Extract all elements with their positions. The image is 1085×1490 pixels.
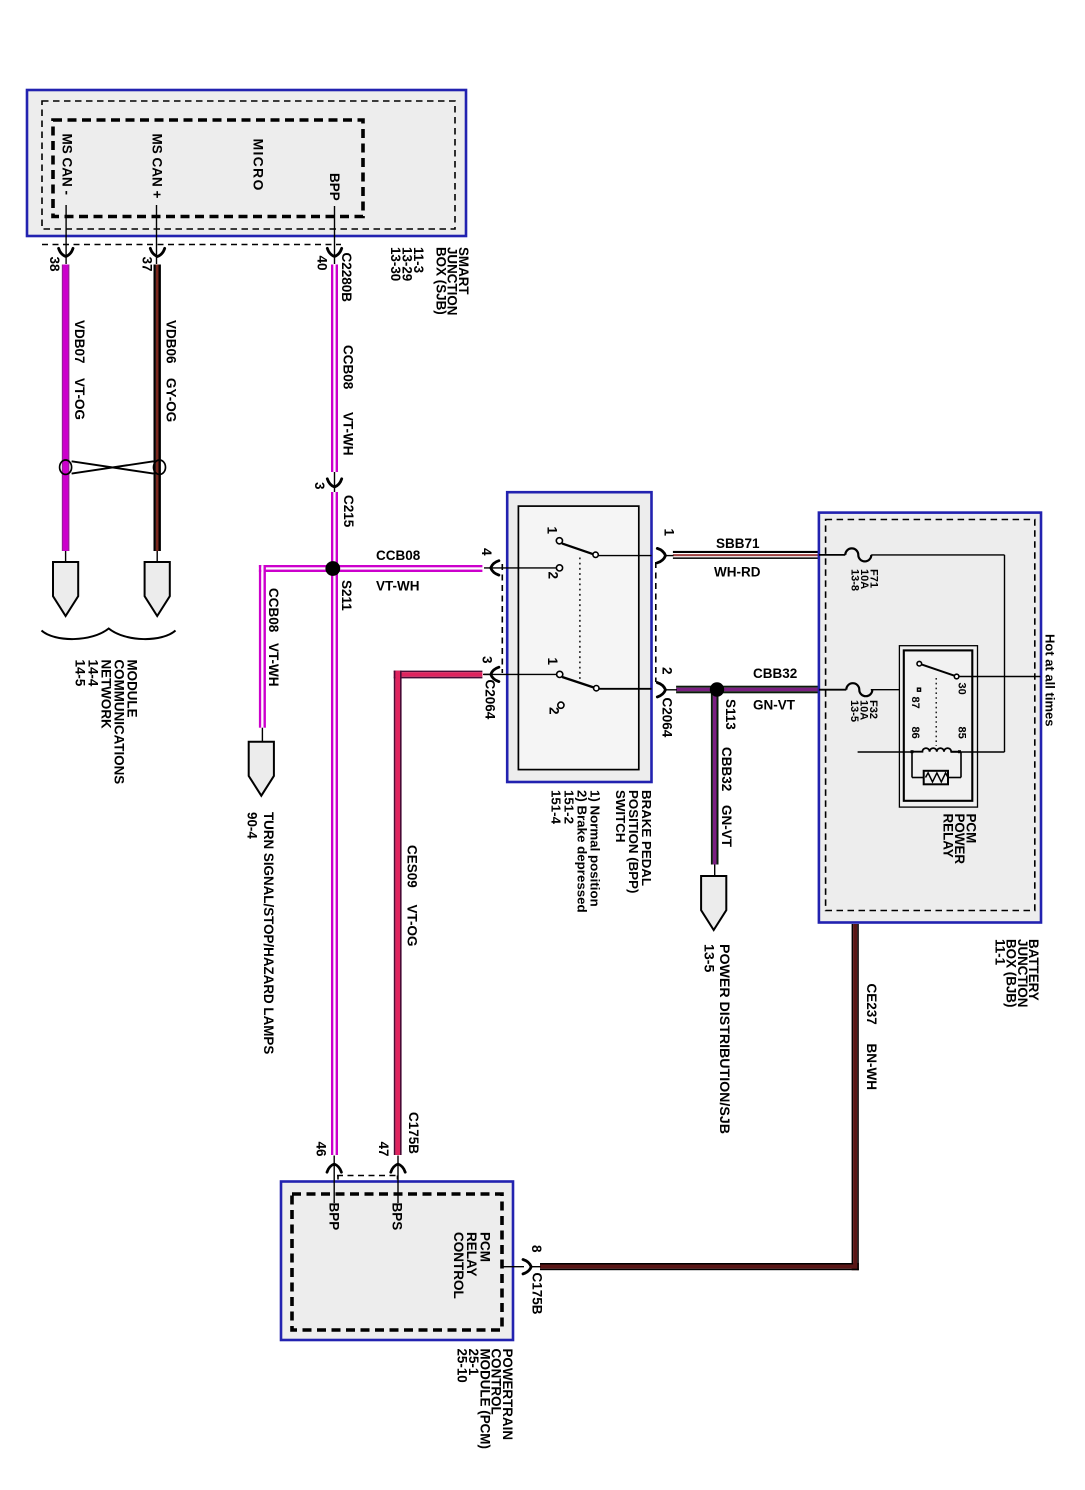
svg-text:C2064: C2064 (483, 680, 498, 720)
battery junction box outline (819, 513, 1041, 923)
F71 feed line (819, 554, 845, 556)
pin 3 lead line (484, 673, 557, 675)
svg-text:BPP: BPP (327, 173, 342, 201)
BPP switch box outline (507, 492, 651, 782)
relay coil feed 86 line (858, 751, 912, 753)
BPP pin 4 arrow (491, 561, 499, 575)
relay coil (912, 748, 961, 752)
svg-text:30: 30 (956, 683, 968, 695)
left connector dashed bracket (501, 564, 503, 673)
svg-text:13-5: 13-5 (700, 944, 716, 973)
smart junction box (SJB) outline (27, 90, 466, 236)
svg-text:CCB08: CCB08 (266, 588, 281, 633)
svg-text:1: 1 (545, 527, 560, 535)
pin 8 line (502, 1266, 524, 1268)
svg-text:GY-OG: GY-OG (164, 378, 179, 422)
svg-text:S113: S113 (723, 699, 738, 730)
svg-text:C2280B: C2280B (339, 253, 354, 303)
relay hot feed line (959, 676, 1041, 678)
svg-text:85: 85 (956, 727, 968, 739)
svg-text:VT-WH: VT-WH (341, 412, 356, 456)
pin 46 lead (333, 1156, 335, 1204)
pin 47 lead (397, 1156, 399, 1204)
wire stub pin 38 (65, 205, 67, 264)
svg-text:87: 87 (909, 697, 921, 709)
svg-text:VDB07: VDB07 (72, 320, 87, 364)
relay pin 30 contact (954, 674, 959, 679)
svg-text:25-10: 25-10 (455, 1349, 470, 1383)
fuse F32 (846, 683, 872, 696)
connector C175B dashed bracket (337, 1175, 399, 1177)
wire CBB32 GN-VT (676, 686, 819, 688)
svg-text:CE237: CE237 (864, 984, 879, 1025)
svg-text:MS CAN +: MS CAN + (150, 134, 165, 199)
svg-text:CCB08: CCB08 (376, 548, 421, 563)
powertrain control module outline (281, 1182, 513, 1341)
svg-text:SBB71: SBB71 (716, 536, 760, 551)
wire CCB08 branch to turn lamps (259, 565, 340, 567)
svg-text:CBB32: CBB32 (719, 747, 734, 791)
svg-text:VT-WH: VT-WH (266, 643, 281, 687)
svg-text:8: 8 (529, 1245, 544, 1253)
svg-text:S211: S211 (339, 580, 354, 611)
bottom switch output line (599, 688, 652, 690)
module network connector 38 (65, 551, 67, 562)
SJB micro inner dashed box (53, 120, 363, 217)
top switch arm (562, 543, 593, 554)
fuse F71 (845, 548, 871, 561)
svg-text:GN-VT: GN-VT (719, 805, 734, 848)
relay suppression resistor (911, 752, 913, 778)
svg-text:11-1: 11-1 (992, 939, 1007, 966)
SJB outer dashed boundary (42, 101, 455, 229)
svg-text:SWITCH: SWITCH (613, 790, 628, 842)
top switch output line (598, 555, 651, 557)
wire VDB06 GY-OG (154, 265, 156, 552)
svg-text:BPS: BPS (390, 1203, 405, 1231)
svg-text:40: 40 (315, 256, 330, 271)
svg-text:C2064: C2064 (659, 698, 674, 738)
svg-text:GN-VT: GN-VT (753, 698, 796, 713)
svg-text:VT-WH: VT-WH (376, 579, 420, 594)
right connector dashed bracket (655, 562, 657, 682)
turn lamps connector (261, 728, 263, 742)
svg-text:3: 3 (312, 482, 327, 490)
BPP pin 2 arrow (657, 683, 665, 697)
svg-text:1: 1 (661, 529, 676, 537)
wire stub pin 37 (156, 205, 158, 264)
pin 46 arrow (327, 1164, 341, 1172)
svg-text:CBB32: CBB32 (753, 666, 797, 681)
connector C2280B dashed line (42, 244, 341, 246)
svg-text:CES09: CES09 (405, 845, 420, 888)
relay coil 85 line (951, 751, 1005, 753)
BPP pin 3 arrow (491, 667, 499, 681)
svg-text:WH-RD: WH-RD (714, 565, 761, 580)
bottom switch arm (562, 677, 594, 688)
pin 37 arrow (150, 248, 164, 256)
pin 8 arrow (523, 1260, 531, 1274)
svg-text:Hot at all times: Hot at all times (1043, 634, 1058, 726)
relay pin 87 contact (918, 688, 921, 691)
splice S113 (710, 682, 724, 696)
power distribution connector (714, 865, 716, 878)
svg-text:CONTROL: CONTROL (451, 1232, 466, 1299)
svg-text:46: 46 (313, 1142, 328, 1158)
svg-text:RELAY: RELAY (941, 814, 956, 858)
svg-text:14-5: 14-5 (73, 660, 88, 687)
wire SBB71 WH-RD (673, 551, 819, 553)
svg-text:2: 2 (546, 572, 561, 580)
svg-text:38: 38 (47, 257, 62, 273)
PCM power relay inner box (904, 650, 973, 800)
PCM inner dashed box (292, 1194, 502, 1330)
relay link dotted line (935, 678, 937, 746)
svg-text:VDB06: VDB06 (164, 320, 179, 364)
wire CBB32 branch down (711, 693, 713, 865)
twisted pair symbol (60, 460, 72, 474)
svg-text:37: 37 (140, 257, 155, 272)
wire CCB08 VT-WH upper (331, 265, 333, 473)
pin 47 arrow (391, 1164, 405, 1172)
switch link dotted line (579, 558, 581, 680)
svg-text:BPP: BPP (327, 1203, 342, 1231)
BJB dashed boundary (826, 520, 1035, 911)
svg-text:2: 2 (547, 707, 562, 715)
svg-text:POWER DISTRIBUTION/SJB: POWER DISTRIBUTION/SJB (716, 944, 732, 1134)
top switch contact 2 (556, 565, 562, 571)
wire CCB08 VT-WH middle (331, 492, 333, 1155)
relay switch arm (917, 661, 922, 666)
svg-text:MS CAN -: MS CAN - (60, 134, 75, 196)
svg-text:13-30: 13-30 (388, 247, 403, 281)
wire stub pin 40 (334, 206, 336, 264)
svg-text:90-4: 90-4 (244, 812, 259, 839)
module network connector 37 (156, 551, 158, 562)
F71 output line (871, 554, 1004, 556)
top switch contact 1 (556, 538, 562, 544)
wire CCB08 branch to BPP pin 4 (332, 565, 482, 567)
svg-text:VT-OG: VT-OG (405, 905, 420, 947)
svg-text:BN-WH: BN-WH (864, 1044, 879, 1091)
svg-text:BOX (SJB): BOX (SJB) (433, 247, 448, 315)
svg-text:4: 4 (479, 548, 494, 556)
svg-text:2: 2 (660, 667, 675, 675)
bottom switch contact 1 (557, 671, 563, 677)
bottom switch contact 2 (558, 702, 564, 708)
wire CES09 corner (394, 671, 483, 673)
pin 4 lead line (484, 567, 557, 569)
BPP pin 1 arrow (657, 548, 665, 562)
svg-text:MICRO: MICRO (251, 139, 267, 192)
svg-text:C175B: C175B (530, 1273, 545, 1315)
F32 feed line (819, 689, 846, 691)
wire CE237 BN-WH (852, 924, 854, 1263)
brace module communications network (42, 629, 176, 640)
svg-text:CCB08: CCB08 (341, 345, 356, 390)
svg-text:13-5: 13-5 (848, 700, 860, 722)
PCM power relay outer box (899, 646, 977, 807)
wire VDB07 VT-OG (62, 265, 63, 552)
svg-text:VT-OG: VT-OG (72, 378, 87, 420)
F32 to relay pin 87 line (871, 689, 917, 691)
svg-text:13-8: 13-8 (848, 569, 860, 591)
BPP switch inner box (518, 506, 638, 769)
pin 40 arrow (327, 248, 341, 256)
bottom switch pivot (594, 686, 599, 691)
svg-text:86: 86 (909, 727, 921, 739)
svg-text:47: 47 (376, 1142, 391, 1157)
top switch pivot (593, 552, 598, 557)
splice S211 (325, 561, 340, 576)
connector C215 arrow (327, 479, 341, 487)
svg-text:1: 1 (545, 658, 560, 666)
svg-text:TURN SIGNAL/STOP/HAZARD LAMPS: TURN SIGNAL/STOP/HAZARD LAMPS (261, 812, 276, 1054)
svg-text:151-4: 151-4 (549, 790, 564, 825)
svg-text:C215: C215 (341, 495, 356, 528)
svg-text:3: 3 (480, 656, 495, 664)
pin 38 arrow (59, 248, 73, 256)
svg-text:C175B: C175B (406, 1112, 421, 1154)
